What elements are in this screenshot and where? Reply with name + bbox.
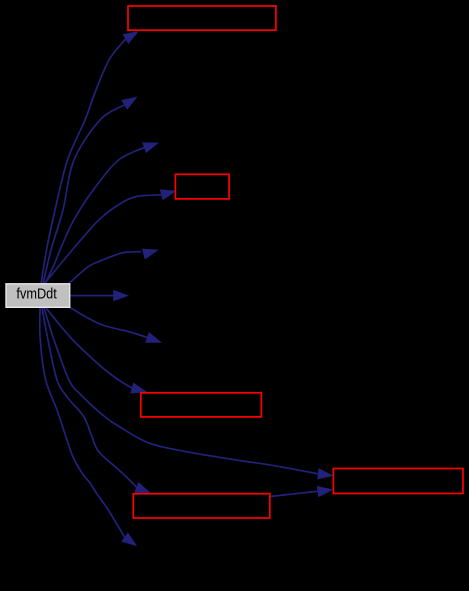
node B3 <box>141 393 262 417</box>
node B5 <box>333 469 463 494</box>
node B1 <box>128 6 276 30</box>
wire e10 <box>42 308 151 493</box>
wire e4 <box>44 189 177 284</box>
wire e11 <box>40 308 138 546</box>
wire e12 <box>270 486 333 497</box>
wire e1 <box>41 31 139 284</box>
node B2 <box>175 174 229 199</box>
node fvmDdt <box>6 284 70 308</box>
wire e3 <box>45 142 159 284</box>
node B4 <box>133 494 269 518</box>
wire e2 <box>43 97 138 284</box>
svg-text:fvmDdt: fvmDdt <box>16 286 57 302</box>
wire e5 <box>68 249 159 285</box>
wire e9 <box>44 308 334 479</box>
wire e8 <box>46 308 147 394</box>
wire e6 <box>70 290 129 301</box>
wire e7 <box>70 308 162 343</box>
